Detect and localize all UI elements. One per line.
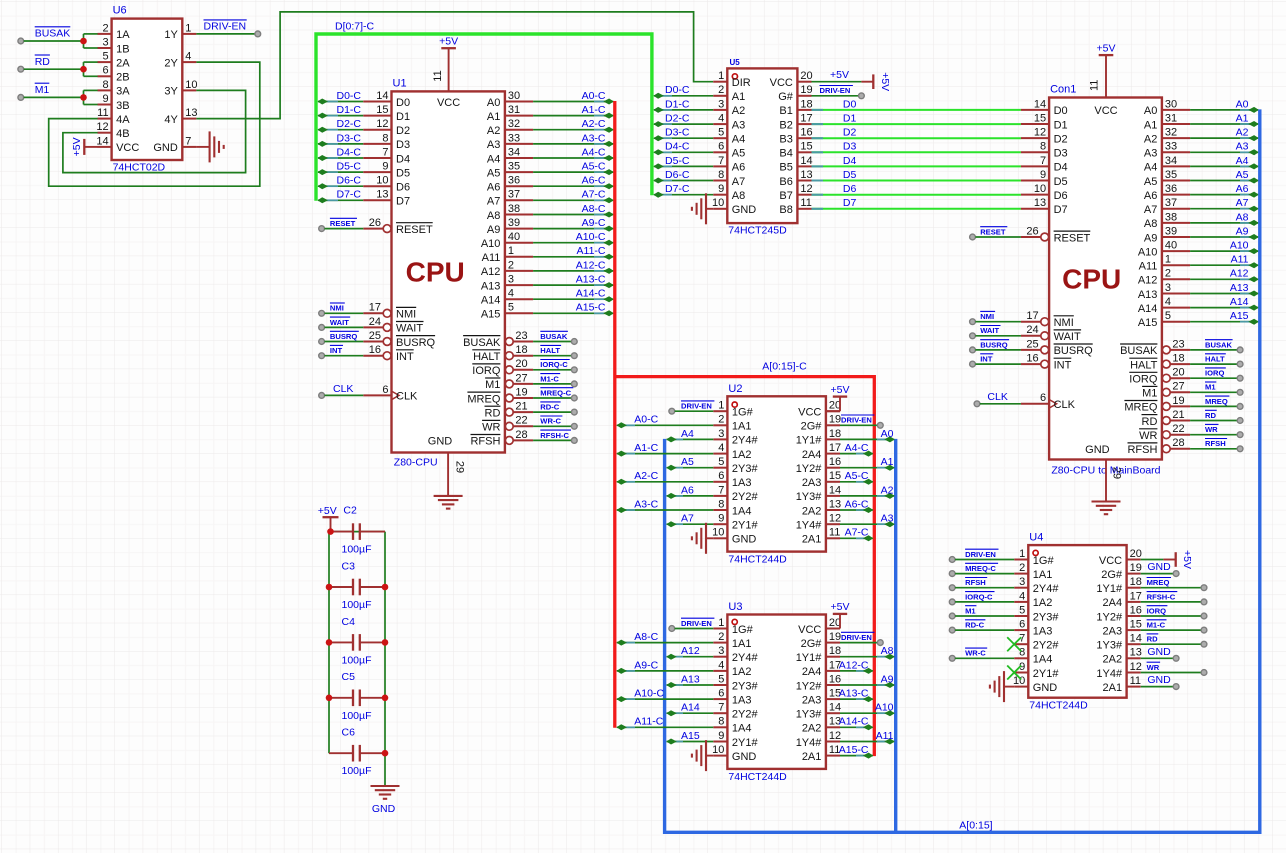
svg-text:A8: A8 xyxy=(487,210,500,222)
net label A4 at U2 xyxy=(681,428,694,440)
svg-text:10: 10 xyxy=(712,527,724,539)
wire A1-C from red bus to U2 xyxy=(617,451,714,457)
svg-text:3: 3 xyxy=(1165,282,1171,294)
svg-text:2A4: 2A4 xyxy=(802,666,822,678)
net label A7 at Con1 xyxy=(1236,197,1249,209)
net label D3 xyxy=(843,141,857,153)
net label RESET at Con1 xyxy=(980,227,1007,237)
svg-text:DRIV-EN: DRIV-EN xyxy=(681,619,712,628)
net label D3-C at U1 xyxy=(336,132,361,144)
svg-text:BUSRQ: BUSRQ xyxy=(980,340,1008,349)
net label D0 xyxy=(843,98,857,110)
net label WR-C xyxy=(540,416,562,426)
net label A10-C at U3 xyxy=(634,688,664,700)
svg-text:D2: D2 xyxy=(843,127,857,139)
svg-text:18: 18 xyxy=(829,645,841,657)
svg-text:D4: D4 xyxy=(396,153,410,165)
svg-text:A12: A12 xyxy=(681,645,700,657)
svg-text:3B: 3B xyxy=(116,100,129,112)
svg-text:NMI: NMI xyxy=(1054,317,1074,329)
net label D7-C at U5 xyxy=(665,183,690,195)
svg-text:A4: A4 xyxy=(1236,155,1249,167)
svg-text:GND: GND xyxy=(428,436,453,448)
svg-text:4Y: 4Y xyxy=(164,114,178,126)
net label A14-C at U3 right xyxy=(839,716,869,728)
net label D2 xyxy=(843,127,857,139)
svg-text:1A1: 1A1 xyxy=(732,638,752,650)
svg-text:C2: C2 xyxy=(343,505,357,517)
svg-text:D5-C: D5-C xyxy=(336,161,361,173)
wire M1 to U4 xyxy=(955,615,1014,617)
svg-text:2: 2 xyxy=(718,414,724,426)
svg-text:M1-C: M1-C xyxy=(1147,621,1166,630)
svg-text:+5V: +5V xyxy=(879,72,891,91)
svg-text:D6-C: D6-C xyxy=(336,175,361,187)
svg-text:NMI: NMI xyxy=(980,312,994,321)
svg-text:9: 9 xyxy=(718,513,724,525)
wire U1 A8 to red bus A[0:15]-C xyxy=(533,212,614,218)
net label D1 xyxy=(843,113,857,125)
no-connect cross at U4 pin 7 xyxy=(1007,637,1021,651)
svg-text:A6: A6 xyxy=(1236,183,1249,195)
ground (earth) at U5 GND pin 10 xyxy=(692,193,713,224)
wire Con1 IORQ to port xyxy=(1190,377,1237,379)
port IORQ-C at U4 left xyxy=(949,599,955,605)
svg-text:8: 8 xyxy=(718,716,724,728)
svg-text:4: 4 xyxy=(718,113,724,125)
svg-text:8: 8 xyxy=(718,169,724,181)
svg-text:CLK: CLK xyxy=(987,391,1007,403)
svg-text:24: 24 xyxy=(1026,324,1038,336)
svg-text:2A3: 2A3 xyxy=(802,477,822,489)
net label A15 at Con1 xyxy=(1230,310,1249,322)
svg-text:14: 14 xyxy=(829,702,841,714)
wire U6 1Y to DRIV-EN port xyxy=(196,33,255,35)
ground (earth) at U2 GND pin 10 xyxy=(692,523,713,554)
net label A5 at U2 xyxy=(681,456,694,468)
port MREQ-C at U4 left xyxy=(949,571,955,577)
svg-text:A7: A7 xyxy=(1144,204,1157,216)
svg-text:A7: A7 xyxy=(732,176,745,188)
wire U4 1Y4# to WR port xyxy=(1141,672,1201,674)
svg-text:12: 12 xyxy=(1130,661,1142,673)
net label RD xyxy=(35,55,51,68)
svg-text:37: 37 xyxy=(1165,197,1177,209)
port HALT xyxy=(571,353,577,359)
net label A2-C at U2 xyxy=(634,470,658,482)
svg-text:11: 11 xyxy=(97,107,108,119)
svg-text:1G#: 1G# xyxy=(1033,555,1055,567)
pin name VCC inside U1 top xyxy=(437,97,460,109)
net label M1-C xyxy=(540,374,560,384)
wire A14-C from U3 to red bus xyxy=(840,724,873,730)
net label A9 at U3 right xyxy=(881,673,894,685)
svg-text:A5-C: A5-C xyxy=(845,470,869,482)
svg-text:6: 6 xyxy=(102,65,108,77)
port WR at Con1 right xyxy=(1237,432,1243,438)
svg-text:VCC: VCC xyxy=(770,77,793,89)
net label A6 at Con1 xyxy=(1236,183,1249,195)
net label BUSAK xyxy=(540,331,568,341)
wire A2 from U2 to blue bus xyxy=(840,493,895,499)
svg-text:D4: D4 xyxy=(843,155,857,167)
svg-text:BUSRQ: BUSRQ xyxy=(1054,345,1094,357)
wire U1 A3 to red bus A[0:15]-C xyxy=(533,141,614,147)
svg-text:18: 18 xyxy=(515,344,527,356)
svg-text:20: 20 xyxy=(1172,367,1184,379)
svg-text:2A1: 2A1 xyxy=(802,751,822,763)
svg-text:4: 4 xyxy=(185,51,191,63)
svg-text:19: 19 xyxy=(800,84,812,96)
svg-text:12: 12 xyxy=(800,183,812,195)
wire U1 MREQ to port xyxy=(533,397,571,399)
wire A10 from U3 to blue bus xyxy=(840,710,895,716)
net label MREQ at U4 right xyxy=(1147,578,1171,588)
svg-text:1Y4#: 1Y4# xyxy=(796,737,823,749)
svg-text:25: 25 xyxy=(1026,338,1038,350)
wire U1 RFSH to port xyxy=(533,439,571,441)
svg-text:2A3: 2A3 xyxy=(802,694,822,706)
ground (earth) at U4 GND pin 10 xyxy=(990,671,1014,702)
svg-text:18: 18 xyxy=(1130,576,1142,588)
svg-text:7: 7 xyxy=(1040,155,1046,167)
svg-text:A3: A3 xyxy=(881,513,894,525)
svg-text:CPU: CPU xyxy=(406,257,465,288)
svg-text:A12: A12 xyxy=(481,266,501,278)
svg-text:A15: A15 xyxy=(1138,317,1158,329)
net label A7-C at U2 right xyxy=(845,527,869,539)
port IORQ at U4 right xyxy=(1201,613,1207,619)
svg-text:17: 17 xyxy=(369,302,381,314)
+5V power port at U6 VCC xyxy=(71,137,98,156)
pin name GND inside Con1 bottom xyxy=(1085,444,1110,456)
svg-text:1Y2#: 1Y2# xyxy=(796,463,823,475)
net label BUSRQ at Con1 xyxy=(980,340,1009,350)
svg-text:MREQ: MREQ xyxy=(1147,578,1170,587)
svg-text:M1: M1 xyxy=(485,379,500,391)
wire Con1 A3 to blue bus A[0:15] xyxy=(1190,149,1259,155)
svg-text:CLK: CLK xyxy=(333,383,353,395)
svg-text:D0-C: D0-C xyxy=(336,90,361,102)
svg-text:23: 23 xyxy=(515,330,527,342)
svg-text:1Y1#: 1Y1# xyxy=(796,435,823,447)
port BUSRQ at Con1 xyxy=(970,347,976,353)
wire GND rail (right) of capacitor bank xyxy=(384,532,386,786)
svg-text:2A2: 2A2 xyxy=(802,505,822,517)
svg-text:17: 17 xyxy=(1130,590,1142,602)
svg-text:RFSH: RFSH xyxy=(1127,444,1157,456)
svg-text:A10-C: A10-C xyxy=(576,231,606,243)
wire A7-C from U2 to red bus xyxy=(840,535,873,541)
bus name label A[0:15] xyxy=(959,820,992,832)
svg-text:A5: A5 xyxy=(487,167,500,179)
net label HALT xyxy=(540,345,561,355)
net label A12-C xyxy=(576,259,606,271)
wire RFSH to U4 xyxy=(955,587,1014,589)
net label RD at U4 right xyxy=(1147,634,1159,644)
svg-text:4: 4 xyxy=(1165,296,1171,308)
wire U1 A12 to red bus A[0:15]-C xyxy=(533,268,614,274)
svg-text:2Y4#: 2Y4# xyxy=(1033,583,1060,595)
svg-text:B1: B1 xyxy=(779,105,792,117)
svg-text:2A4: 2A4 xyxy=(1103,597,1123,609)
svg-text:19: 19 xyxy=(515,386,527,398)
svg-text:G#: G# xyxy=(778,91,794,103)
svg-text:1Y2#: 1Y2# xyxy=(1096,611,1123,623)
net label D1-C at U1 xyxy=(336,104,361,116)
net label D4-C at U5 xyxy=(665,141,690,153)
capacitor C5 100µF xyxy=(329,671,385,722)
net label A0-C at U2 xyxy=(634,414,658,426)
svg-text:DRIV-EN: DRIV-EN xyxy=(204,21,247,33)
net label A9-C xyxy=(582,217,606,229)
svg-text:11: 11 xyxy=(1089,80,1101,91)
svg-text:M1: M1 xyxy=(965,606,976,615)
svg-text:21: 21 xyxy=(1172,409,1184,421)
svg-text:+5V: +5V xyxy=(830,69,849,81)
svg-text:C4: C4 xyxy=(342,616,356,628)
net label A3 at Con1 xyxy=(1236,141,1249,153)
svg-text:A9: A9 xyxy=(1236,225,1249,237)
port CLK at U1 xyxy=(319,393,325,399)
svg-text:D5: D5 xyxy=(1054,176,1068,188)
svg-text:A3: A3 xyxy=(1144,148,1157,160)
svg-text:D1: D1 xyxy=(396,111,410,123)
svg-text:5: 5 xyxy=(718,456,724,468)
wire D7-C from bus to U5 A8 xyxy=(653,192,713,198)
net label A12 at Con1 xyxy=(1230,268,1249,280)
port GND at U4 right xyxy=(1173,655,1179,661)
net label A13-C at U3 right xyxy=(839,688,869,700)
svg-text:A15-C: A15-C xyxy=(576,302,606,314)
svg-text:DRIV-EN: DRIV-EN xyxy=(841,416,872,425)
wire Con1 MREQ to port xyxy=(1190,405,1237,407)
svg-text:A4: A4 xyxy=(732,134,745,146)
svg-text:BUSAK: BUSAK xyxy=(35,28,71,40)
net label RFSH at Con1 right xyxy=(1205,439,1227,449)
svg-text:INT: INT xyxy=(1054,359,1072,371)
port WAIT at U1 xyxy=(319,325,325,331)
port RFSH-C xyxy=(571,438,577,444)
svg-text:A4: A4 xyxy=(681,428,694,440)
wire Con1 RD to port xyxy=(1190,420,1237,422)
net label INT at Con1 xyxy=(980,354,993,364)
net label GND at U4 right xyxy=(1147,561,1171,573)
port DRIV-EN at U2 1G# xyxy=(669,408,675,414)
svg-text:12: 12 xyxy=(96,121,108,133)
svg-text:9: 9 xyxy=(718,730,724,742)
svg-text:18: 18 xyxy=(829,428,841,440)
wire A4 from blue bus to U2 xyxy=(666,436,713,442)
svg-text:A13: A13 xyxy=(481,280,501,292)
port WR at U4 right xyxy=(1201,670,1207,676)
svg-text:11: 11 xyxy=(800,197,811,209)
wire D1 from U5 B2 to Con1 D1 xyxy=(812,123,1021,125)
svg-text:BUSAK: BUSAK xyxy=(463,337,501,349)
svg-text:26: 26 xyxy=(1026,225,1038,237)
svg-text:13: 13 xyxy=(1130,647,1142,659)
pin 11 stub and +5V power port at U1 VCC xyxy=(432,36,458,92)
svg-text:13: 13 xyxy=(185,107,197,119)
net label A11-C xyxy=(577,245,606,257)
net label A11-C at U3 xyxy=(634,716,663,728)
svg-text:5: 5 xyxy=(1019,604,1025,616)
net label WAIT at U1 xyxy=(330,317,350,327)
svg-text:14: 14 xyxy=(1034,98,1046,110)
svg-text:U1: U1 xyxy=(393,77,407,89)
svg-text:A12: A12 xyxy=(1230,268,1249,280)
svg-text:D7: D7 xyxy=(843,197,857,209)
svg-text:A11: A11 xyxy=(1231,254,1249,266)
svg-text:U3: U3 xyxy=(728,601,742,613)
svg-text:WR: WR xyxy=(1205,425,1218,434)
svg-text:A3: A3 xyxy=(732,119,745,131)
port BUSAK (input to U6 1A/1B) xyxy=(18,38,24,44)
svg-text:A10-C: A10-C xyxy=(634,688,664,700)
svg-text:13: 13 xyxy=(800,169,812,181)
svg-text:26: 26 xyxy=(369,217,381,229)
svg-text:2: 2 xyxy=(1019,562,1025,574)
svg-text:INT: INT xyxy=(980,355,993,364)
svg-text:4: 4 xyxy=(1019,590,1025,602)
net label D6 xyxy=(843,183,857,195)
wire DRIV-EN to U4 xyxy=(955,559,1014,561)
wire A5-C from U2 to red bus xyxy=(840,479,873,485)
svg-text:D1-C: D1-C xyxy=(336,104,361,116)
net label DRIV-EN at U3 1G# xyxy=(681,618,714,628)
net label A9-C at U3 xyxy=(634,659,658,671)
wire CLK port to U1 xyxy=(325,394,364,396)
svg-text:2A: 2A xyxy=(116,57,130,69)
svg-text:WR-C: WR-C xyxy=(965,649,986,658)
+5V power port at U3 VCC pin 20 xyxy=(826,601,850,628)
svg-text:M1: M1 xyxy=(1142,388,1157,400)
wire D6 from U5 B7 to Con1 D6 xyxy=(812,194,1021,196)
svg-text:D3: D3 xyxy=(396,139,410,151)
wire U1 A4 to red bus A[0:15]-C xyxy=(533,155,614,161)
+5V power port at U5 VCC pin 20 xyxy=(812,72,891,91)
svg-text:A1-C: A1-C xyxy=(582,104,606,116)
svg-text:GND: GND xyxy=(732,751,757,763)
bus A[0:15] xyxy=(665,109,1260,833)
net label A2 at Con1 xyxy=(1236,127,1249,139)
svg-text:12: 12 xyxy=(829,513,841,525)
ground (earth) at U6 GND pin 7 xyxy=(196,131,223,162)
svg-text:30: 30 xyxy=(508,90,520,102)
net label MREQ-C at U4 left xyxy=(965,563,998,573)
svg-text:D0-C: D0-C xyxy=(665,84,690,96)
svg-text:2G#: 2G# xyxy=(1101,569,1123,581)
capacitor C6 100µF xyxy=(329,727,385,778)
IC U1 Z80-CPU xyxy=(363,77,533,468)
svg-text:28: 28 xyxy=(1172,437,1184,449)
net label A10 at U3 right xyxy=(875,702,894,714)
wire D2-C from bus to U5 A3 xyxy=(653,121,713,127)
svg-text:WAIT: WAIT xyxy=(980,326,999,335)
svg-text:MREQ: MREQ xyxy=(467,393,500,405)
wire D6-C from bus to U1 D6 xyxy=(318,183,364,189)
net label A13 at Con1 xyxy=(1230,282,1249,294)
wire RD-C to U4 xyxy=(955,629,1014,631)
svg-text:A1: A1 xyxy=(1236,112,1249,124)
wire Con1 A1 to blue bus A[0:15] xyxy=(1190,121,1259,127)
port WR-C xyxy=(571,423,577,429)
svg-text:19: 19 xyxy=(1130,562,1142,574)
svg-text:A11-C: A11-C xyxy=(577,245,606,257)
svg-text:HALT: HALT xyxy=(1205,355,1225,364)
wire WAIT port to U1 xyxy=(325,326,364,328)
wire Con1 HALT to port xyxy=(1190,363,1237,365)
svg-text:10: 10 xyxy=(376,175,388,187)
port MREQ-C xyxy=(571,395,577,401)
wire A14 from blue bus to U3 xyxy=(666,710,713,716)
net label A10 at Con1 xyxy=(1230,240,1249,252)
svg-text:A13-C: A13-C xyxy=(839,688,869,700)
svg-text:WR: WR xyxy=(1147,663,1160,672)
svg-text:2B: 2B xyxy=(116,72,129,84)
svg-text:1: 1 xyxy=(185,22,191,34)
svg-text:A5: A5 xyxy=(1236,169,1249,181)
net label CLK at U1 xyxy=(333,383,353,395)
svg-text:4B: 4B xyxy=(116,128,129,140)
svg-text:1G#: 1G# xyxy=(732,407,754,419)
wire IORQ-C to U4 xyxy=(955,601,1014,603)
svg-text:1: 1 xyxy=(1019,548,1025,560)
svg-text:A6: A6 xyxy=(732,162,745,174)
svg-text:14: 14 xyxy=(829,484,841,496)
port M1 at Con1 right xyxy=(1237,389,1243,395)
svg-text:GND: GND xyxy=(372,803,396,815)
svg-text:D5: D5 xyxy=(396,167,410,179)
svg-text:4A: 4A xyxy=(116,114,130,126)
net label CLK at Con1 xyxy=(987,391,1007,403)
svg-text:U5: U5 xyxy=(730,58,741,67)
port RD at Con1 right xyxy=(1237,418,1243,424)
IC U3 74HCT244D xyxy=(712,601,841,783)
wire D1-C from bus to U5 A2 xyxy=(653,107,713,113)
wire U4 1Y1# to MREQ port xyxy=(1141,587,1201,589)
wire Con1 A9 to blue bus A[0:15] xyxy=(1190,234,1259,240)
net label D3-C at U5 xyxy=(665,127,690,139)
net label D2-C at U5 xyxy=(665,113,690,125)
port M1 at U4 left xyxy=(949,613,955,619)
svg-text:A12: A12 xyxy=(1138,275,1158,287)
svg-text:24: 24 xyxy=(369,316,381,328)
wire top joining rails at C2 xyxy=(329,531,385,533)
net label D0-C at U1 xyxy=(336,90,361,102)
port M1-C at U4 right xyxy=(1201,627,1207,633)
net label RFSH at U4 left xyxy=(965,578,987,588)
svg-text:2: 2 xyxy=(718,631,724,643)
svg-text:10: 10 xyxy=(185,79,197,91)
net label M1 at U4 left xyxy=(965,606,976,616)
svg-text:C6: C6 xyxy=(342,727,356,739)
svg-text:A6: A6 xyxy=(681,484,694,496)
svg-text:13: 13 xyxy=(829,498,841,510)
+5V power port at U2 VCC pin 20 xyxy=(826,384,850,411)
svg-text:+5V: +5V xyxy=(1097,43,1116,55)
svg-text:A2: A2 xyxy=(881,484,894,496)
svg-text:B5: B5 xyxy=(779,162,792,174)
IC U5 74HCT245D xyxy=(712,58,813,236)
wire U1 A11 to red bus A[0:15]-C xyxy=(533,254,614,260)
net label IORQ-C at U4 left xyxy=(965,592,994,602)
svg-text:A14-C: A14-C xyxy=(839,716,869,728)
svg-text:36: 36 xyxy=(1165,183,1177,195)
net label A15-C xyxy=(576,302,606,314)
wire A9-C from red bus to U3 xyxy=(617,668,714,674)
wire A11-C from red bus to U3 xyxy=(617,724,714,730)
